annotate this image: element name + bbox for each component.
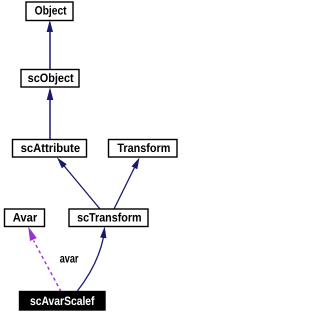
wire: inheritance arrow scTransform to Transform <box>114 158 140 210</box>
class box scTransform <box>69 209 148 227</box>
class box scAttribute <box>13 140 87 158</box>
wire: inheritance arrow scAttribute to scObject <box>47 87 54 139</box>
svg-text:Transform: Transform <box>117 141 170 155</box>
wire: inheritance arrow scTransform to scAttribute <box>57 158 100 210</box>
svg-text:Avar: Avar <box>13 211 38 225</box>
class box Transform <box>109 140 178 158</box>
svg-text:scTransform: scTransform <box>77 211 142 225</box>
svg-text:scAttribute: scAttribute <box>21 141 81 155</box>
wire: inheritance arrow scAvarScalef to scTransform (curved) <box>77 227 106 292</box>
svg-text:avar: avar <box>60 252 79 266</box>
wire: usage arrow scAvarScalef to Avar (dashed purple) <box>28 227 61 292</box>
class box Avar <box>5 209 45 227</box>
class box scAvarScalef (current class, filled black) <box>20 292 106 311</box>
svg-text:Object: Object <box>35 3 67 17</box>
svg-text:scObject: scObject <box>28 71 74 85</box>
class box Object <box>26 2 73 21</box>
wire: inheritance arrow scObject to Object <box>47 20 53 70</box>
class box scObject <box>21 70 79 88</box>
svg-text:scAvarScalef: scAvarScalef <box>30 294 95 308</box>
